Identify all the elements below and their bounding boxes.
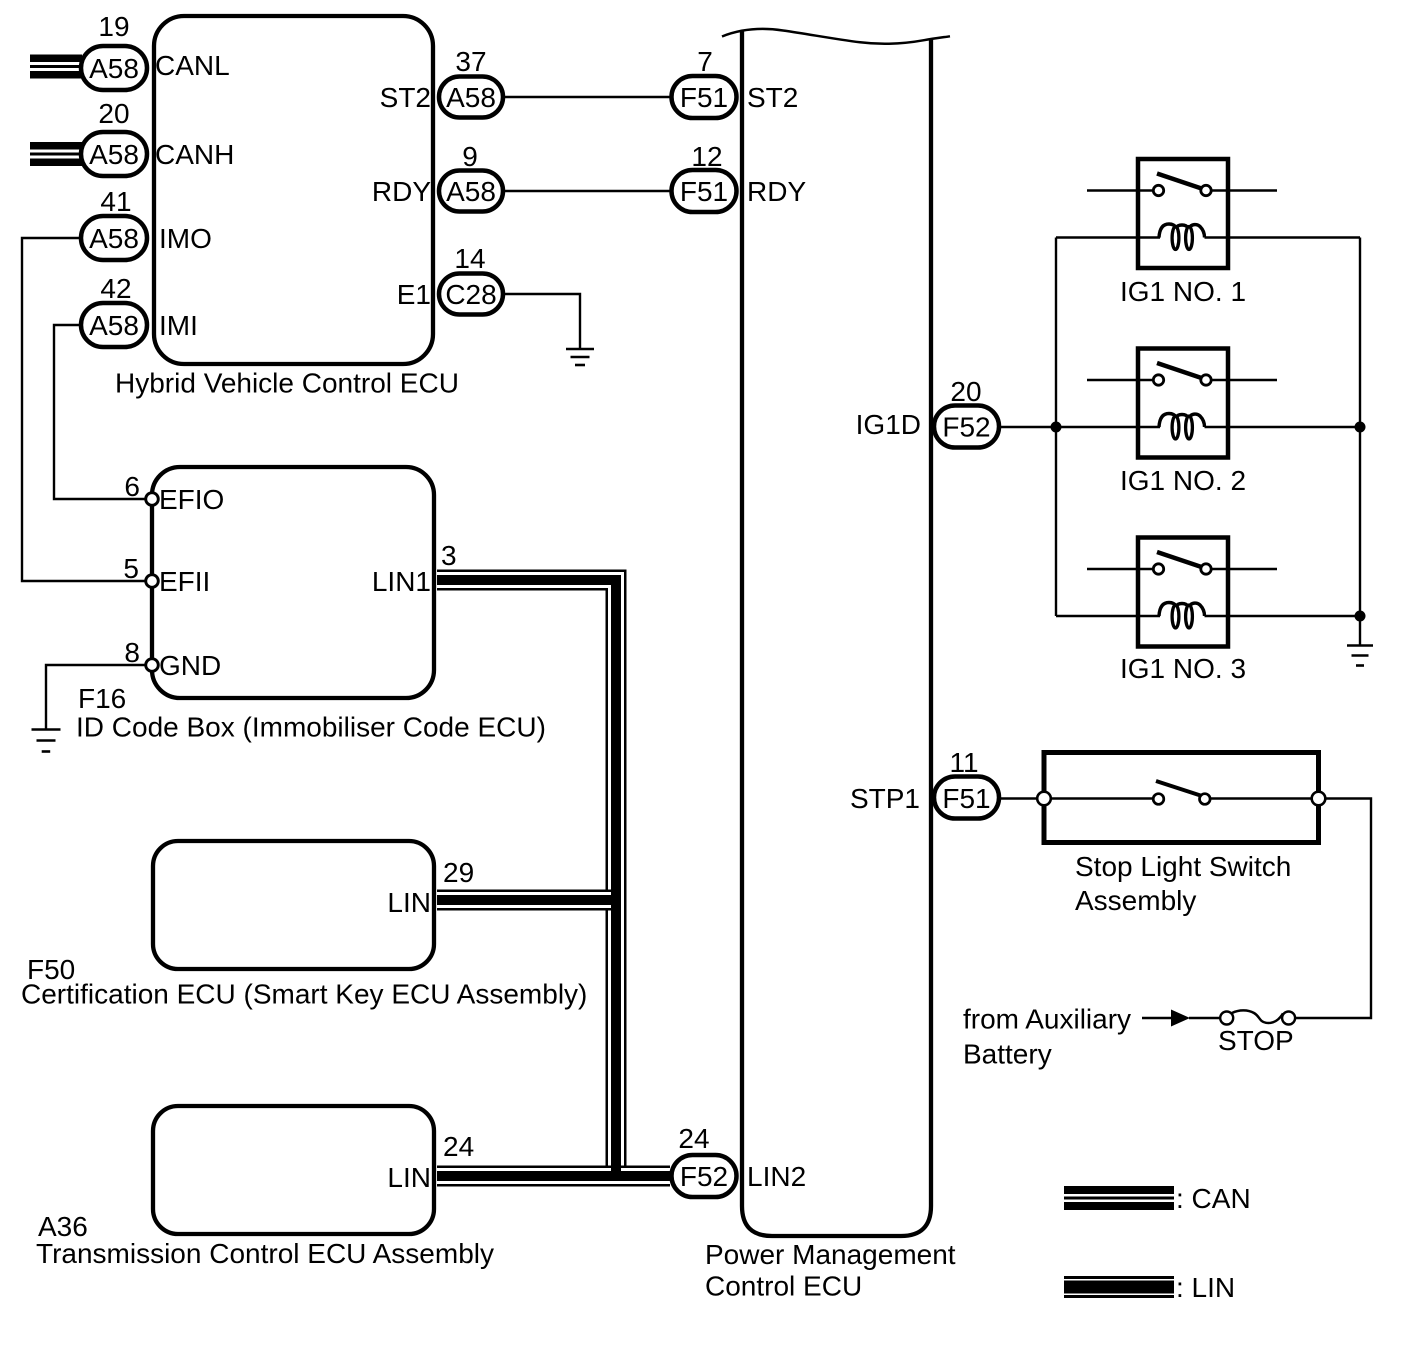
connector F52 pin 20 IG1D	[856, 376, 999, 448]
junction of LIN trunk and pin-24 bus	[611, 1163, 621, 1177]
connector A58 pin 41 IMO	[81, 186, 212, 260]
LIN bus wire from LIN1 pin 3 down trunk	[437, 580, 616, 1176]
CAN bus stub at CANL	[30, 55, 82, 79]
svg-text:IMI: IMI	[159, 310, 198, 341]
svg-text:Stop Light Switch: Stop Light Switch	[1075, 851, 1291, 882]
svg-text:A58: A58	[89, 310, 139, 341]
svg-text:STP1: STP1	[850, 783, 920, 814]
svg-text:9: 9	[462, 141, 478, 172]
svg-text:LIN2: LIN2	[747, 1161, 806, 1192]
wire RDY A58 to F51	[505, 190, 670, 192]
svg-text:GND: GND	[159, 650, 221, 681]
svg-text:CANL: CANL	[155, 50, 230, 81]
svg-text:: CAN: : CAN	[1176, 1183, 1251, 1214]
connector A58 pin 9 RDY	[372, 141, 503, 212]
svg-text:F52: F52	[942, 412, 990, 443]
svg-text:8: 8	[124, 637, 140, 668]
svg-text:7: 7	[697, 46, 713, 77]
svg-text:STOP: STOP	[1218, 1025, 1294, 1056]
svg-text:3: 3	[441, 540, 457, 571]
connector F51 pin 12 RDY	[672, 141, 807, 212]
ECU box U1: Hybrid Vehicle Control ECU	[115, 16, 459, 399]
svg-text:Hybrid Vehicle Control ECU: Hybrid Vehicle Control ECU	[115, 368, 459, 399]
svg-text:37: 37	[455, 46, 486, 77]
wire right relay branch vertical to ground	[1359, 238, 1361, 646]
junction node at right branch / IG1D	[1355, 422, 1366, 433]
svg-text:20: 20	[950, 376, 981, 407]
svg-text:Assembly: Assembly	[1075, 885, 1196, 916]
stop light switch contacts SW1	[1052, 781, 1312, 804]
svg-text:24: 24	[443, 1131, 474, 1162]
connector A58 pin 20 CANH	[81, 98, 234, 176]
wire relay3 coil row	[1056, 615, 1360, 617]
svg-text:LIN: LIN	[387, 1162, 431, 1193]
svg-text:A58: A58	[446, 176, 496, 207]
svg-text:C28: C28	[445, 279, 496, 310]
svg-text:LIN1: LIN1	[372, 566, 431, 597]
svg-text:IG1 NO. 3: IG1 NO. 3	[1120, 653, 1246, 684]
terminal circle right of stop light switch	[1312, 792, 1326, 806]
svg-text:: LIN: : LIN	[1176, 1272, 1235, 1303]
pin 8 GND terminal circle	[124, 637, 221, 681]
svg-text:Control ECU: Control ECU	[705, 1271, 862, 1302]
connector F51 pin 7 ST2	[672, 46, 799, 118]
pin 5 EFII terminal circle	[123, 553, 210, 597]
pin number 3 and LIN1 label	[372, 540, 457, 597]
svg-text:ST2: ST2	[380, 82, 431, 113]
svg-text:A58: A58	[89, 139, 139, 170]
svg-text:20: 20	[98, 98, 129, 129]
svg-text:29: 29	[443, 857, 474, 888]
wire STP1 F51 to stop light switch	[1001, 797, 1037, 799]
legend CAN symbol	[1064, 1183, 1251, 1214]
svg-text:19: 19	[98, 11, 129, 42]
switch box: Stop Light Switch Assembly	[1044, 753, 1319, 917]
relay K3 IG1 NO. 3	[1087, 538, 1277, 685]
svg-text:IG1D: IG1D	[856, 409, 921, 440]
svg-text:EFIO: EFIO	[159, 484, 224, 515]
ground at relay branch	[1347, 646, 1373, 666]
svg-text:ST2: ST2	[747, 82, 798, 113]
junction node at right branch / relay3 coil	[1355, 611, 1366, 622]
svg-text:A58: A58	[446, 82, 496, 113]
svg-text:ID Code Box (Immobiliser Code: ID Code Box (Immobiliser Code ECU)	[76, 712, 546, 743]
connector A58 pin 19 CANL	[81, 11, 230, 90]
ECU box F50: Certification ECU	[21, 841, 587, 1010]
svg-text:IG1 NO. 1: IG1 NO. 1	[1120, 276, 1246, 307]
svg-text:5: 5	[123, 553, 139, 584]
wire E1 C28 to ground	[505, 294, 580, 349]
wire left relay branch vertical	[1055, 238, 1057, 617]
ECU box A36: Transmission Control ECU	[36, 1106, 494, 1269]
svg-text:24: 24	[678, 1123, 709, 1154]
svg-text:6: 6	[124, 471, 140, 502]
svg-text:CANH: CANH	[155, 139, 234, 170]
wire IMI A58-42 to EFIO pin 6	[54, 325, 146, 499]
svg-text:Battery: Battery	[963, 1039, 1052, 1070]
svg-text:IMO: IMO	[159, 223, 212, 254]
ECU box: Power Management Control ECU (tall, broken top)	[705, 30, 956, 1302]
connector F52 pin 24 LIN2	[672, 1123, 807, 1197]
wire ST2 A58 to F51	[505, 96, 670, 98]
svg-text:IG1 NO. 2: IG1 NO. 2	[1120, 465, 1246, 496]
arrow from auxiliary battery	[1142, 1010, 1220, 1027]
LIN bus wire from Certification ECU LIN pin 29	[437, 890, 616, 911]
from Auxiliary Battery label	[963, 1004, 1131, 1070]
connector F51 pin 11 STP1	[850, 747, 999, 819]
wire GND pin 8 to ground	[46, 665, 146, 729]
svg-text:Power Management: Power Management	[705, 1239, 956, 1270]
relay K2 IG1 NO. 2	[1087, 349, 1277, 497]
connector A58 pin 42 IMI	[81, 273, 198, 347]
relay K1 IG1 NO. 1	[1087, 159, 1277, 307]
svg-text:LIN: LIN	[387, 887, 431, 918]
svg-text:42: 42	[100, 273, 131, 304]
junction of LIN trunk and pin-29 bus	[611, 889, 621, 911]
svg-text:A58: A58	[89, 53, 139, 84]
svg-text:11: 11	[949, 747, 978, 778]
wire stop light switch to STOP fuse	[1296, 799, 1371, 1019]
svg-text:12: 12	[691, 141, 722, 172]
LIN bus wire from Transmission LIN pin 24 to F52 LIN2	[437, 1166, 670, 1187]
break wave at top of Power Management ECU	[722, 29, 950, 44]
pin 6 EFIO terminal circle	[124, 471, 224, 515]
svg-text:F52: F52	[680, 1161, 728, 1192]
svg-text:A58: A58	[89, 223, 139, 254]
CAN bus stub at CANH	[30, 142, 82, 166]
ground at F16 GND	[32, 730, 61, 752]
svg-text:E1: E1	[397, 279, 431, 310]
svg-text:14: 14	[454, 243, 485, 274]
junction node at left branch / IG1D	[1051, 422, 1062, 433]
svg-text:from Auxiliary: from Auxiliary	[963, 1004, 1131, 1035]
wire relay1 coil row	[1056, 236, 1360, 238]
ground at E1	[566, 349, 594, 365]
wire IMO A58-41 to EFII pin 5	[22, 238, 146, 581]
connector C28 pin 14 E1	[397, 243, 503, 315]
svg-text:Certification ECU (Smart Key E: Certification ECU (Smart Key ECU Assembl…	[21, 979, 587, 1010]
svg-text:RDY: RDY	[372, 176, 431, 207]
wire IG1D F52 to relay network	[1001, 426, 1360, 428]
svg-text:F51: F51	[680, 82, 728, 113]
terminal circle left of stop light switch	[1037, 792, 1051, 806]
svg-text:RDY: RDY	[747, 176, 806, 207]
svg-text:F51: F51	[680, 176, 728, 207]
fuse STOP	[1218, 1010, 1295, 1056]
connector A58 pin 37 ST2	[380, 46, 503, 118]
svg-text:Transmission Control ECU Assem: Transmission Control ECU Assembly	[36, 1238, 494, 1269]
svg-text:EFII: EFII	[159, 566, 210, 597]
svg-text:41: 41	[100, 186, 131, 217]
ECU box F16: ID Code Box	[76, 467, 546, 743]
svg-text:F51: F51	[942, 783, 990, 814]
legend LIN symbol	[1064, 1272, 1235, 1303]
svg-text:F16: F16	[78, 683, 126, 714]
